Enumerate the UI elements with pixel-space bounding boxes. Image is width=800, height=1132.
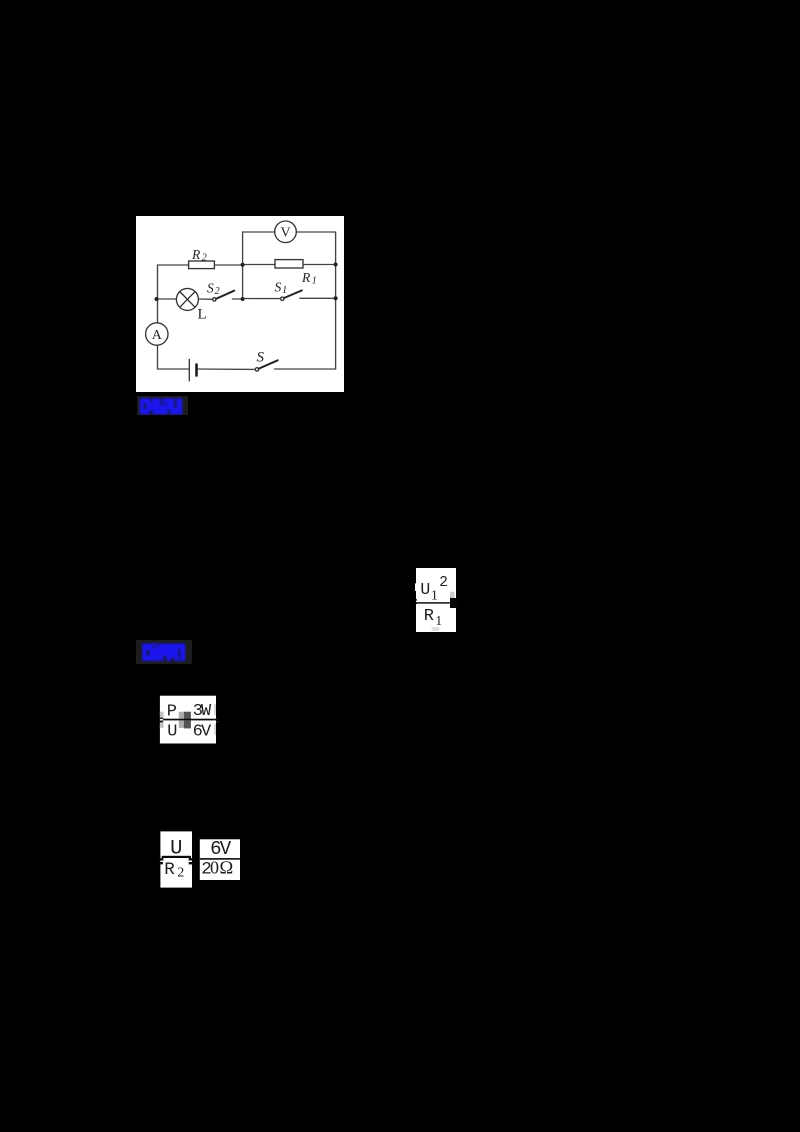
wire: top row right of voltmeter xyxy=(296,231,335,233)
voltmeter V xyxy=(275,221,297,243)
wire: S2 to middle rail xyxy=(233,298,243,300)
right equals remnants xyxy=(189,858,193,860)
switch S xyxy=(255,368,258,371)
svg-text:R: R xyxy=(424,607,434,626)
black cursor blob xyxy=(450,598,458,608)
left equals remnants xyxy=(159,858,163,860)
svg-text:U: U xyxy=(420,580,430,599)
svg-text:V: V xyxy=(201,722,212,741)
svg-text:R: R xyxy=(164,860,175,880)
svg-text:A: A xyxy=(152,328,163,343)
svg-text:V: V xyxy=(280,226,290,241)
svg-text:2: 2 xyxy=(439,575,448,591)
svg-text:W: W xyxy=(201,702,212,721)
svg-text:0: 0 xyxy=(210,857,219,877)
fraction bar xyxy=(162,856,191,858)
svg-text:2: 2 xyxy=(215,286,220,297)
left equals remnants xyxy=(415,599,417,600)
equals artifact block xyxy=(179,712,184,719)
wire: S1 to right rail xyxy=(300,297,336,299)
wire: lamp to S2 xyxy=(198,298,212,300)
svg-text:2: 2 xyxy=(202,252,207,263)
blue label (blurred CJK) 1 xyxy=(134,393,190,420)
wire: R2 to middle node xyxy=(214,264,242,266)
wire: R1 to right rail xyxy=(303,264,336,266)
wire: battery to S xyxy=(198,368,255,370)
resistor R2 xyxy=(189,261,215,269)
left equals remnants xyxy=(159,718,163,719)
svg-text:R: R xyxy=(301,270,311,285)
formula image: P/U = 3W/6V xyxy=(157,695,219,745)
wire: middle vertical rail xyxy=(242,232,244,299)
svg-text:2: 2 xyxy=(177,866,184,881)
ammeter A xyxy=(146,323,168,345)
highlight box for analysis label xyxy=(137,396,188,415)
wire: middle node to R1 xyxy=(243,264,275,266)
edge gray columns xyxy=(160,712,164,719)
wire: left rail upper xyxy=(157,265,159,323)
wire: right vertical rail xyxy=(335,232,337,369)
blue label (blurred CJK) 2 xyxy=(136,638,194,666)
wire: lamp row left xyxy=(157,298,177,300)
wire: left rail lower xyxy=(157,346,159,370)
wire: bottom row left xyxy=(158,368,190,370)
svg-text:L: L xyxy=(198,307,207,323)
battery long plate xyxy=(188,359,190,381)
fraction bar xyxy=(200,858,240,860)
fraction bar xyxy=(416,602,451,604)
junction node dots xyxy=(155,297,159,301)
svg-text:R: R xyxy=(191,247,201,262)
svg-text:V: V xyxy=(220,838,232,860)
wire: S to right rail xyxy=(275,368,336,370)
svg-text:U: U xyxy=(167,722,177,741)
battery short plate xyxy=(195,365,198,376)
svg-text:S: S xyxy=(275,280,282,295)
right equals remnant xyxy=(216,718,218,719)
svg-text:S: S xyxy=(207,281,214,296)
wire: middle rail to S1 xyxy=(243,298,281,300)
svg-text:1: 1 xyxy=(282,285,287,296)
svg-text:P: P xyxy=(167,702,177,721)
svg-text:1: 1 xyxy=(431,589,438,604)
fraction bar (both) xyxy=(163,719,216,721)
svg-text:1: 1 xyxy=(312,275,317,286)
formula image: 6V / 20 ohm xyxy=(199,838,241,881)
svg-text:S: S xyxy=(257,350,265,366)
svg-text:1: 1 xyxy=(435,613,442,628)
lamp L xyxy=(176,288,198,310)
circuit figure (scanned schematic image) xyxy=(136,216,344,392)
highlight box for solution label xyxy=(136,640,192,664)
svg-text:Ω: Ω xyxy=(219,858,233,878)
switch S1 xyxy=(281,297,284,300)
formula image: U1^2 / R1 xyxy=(415,568,459,632)
formula image: U / R2 xyxy=(159,831,193,888)
wire: R2 row left xyxy=(158,264,189,266)
wire: top row left of voltmeter xyxy=(243,231,275,233)
resistor R1 xyxy=(275,260,303,268)
switch S2 xyxy=(213,298,216,301)
